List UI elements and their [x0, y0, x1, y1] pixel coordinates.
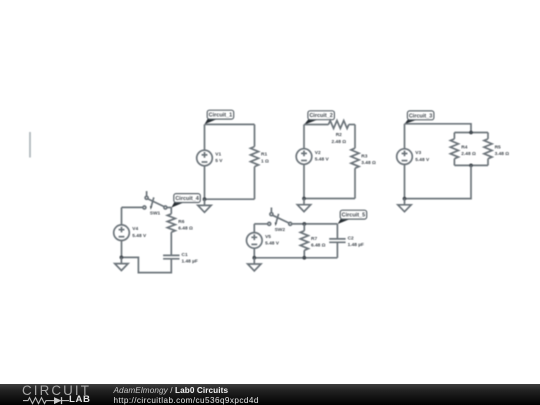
wire V3 bottom lead — [404, 164, 406, 198]
wire C2 top lead — [336, 224, 338, 239]
CircuitLab logo resistor and diode symbol — [22, 396, 70, 405]
wire V4 bottom lead — [121, 241, 123, 258]
svg-text:Circuit_2: Circuit_2 — [309, 113, 333, 119]
wire parallel bottom rail — [454, 164, 488, 166]
resistor R1 — [251, 124, 270, 199]
resistor R4 — [450, 133, 476, 166]
svg-text:6.48 Ω: 6.48 Ω — [311, 243, 326, 249]
node label Circuit_3 — [405, 111, 434, 124]
junction circuit4 ground node — [120, 256, 124, 260]
switch SW2 — [268, 208, 292, 234]
node label Circuit_4 — [171, 194, 200, 208]
junction parallel bottom — [469, 164, 473, 168]
resistor R2 — [304, 121, 355, 145]
svg-text:2.48 Ω: 2.48 Ω — [332, 139, 347, 145]
resistor R7 — [300, 224, 325, 258]
CircuitLab logo text CIRCUIT — [22, 384, 91, 397]
wire C2 bottom lead — [336, 242, 338, 257]
wire circuit5 bottom — [254, 257, 337, 259]
switch SW1 — [143, 191, 167, 217]
node label Circuit_2 — [304, 111, 334, 125]
wire V1 bottom lead — [204, 166, 206, 199]
svg-text:5 V: 5 V — [215, 158, 223, 164]
wire V5 bottom lead — [253, 248, 255, 258]
wire parallel top rail — [454, 132, 488, 134]
wire SW1 to R6 node — [167, 207, 171, 209]
CircuitLab logo word LAB — [69, 395, 91, 404]
svg-text:V1: V1 — [215, 151, 221, 157]
voltage source V2 — [296, 149, 329, 165]
junction parallel top — [469, 131, 473, 135]
junction circuit3 ground node — [403, 197, 407, 201]
junction R7 bottom — [302, 256, 306, 260]
svg-text:C1: C1 — [182, 252, 188, 258]
junction circuit2 ground node — [302, 197, 306, 201]
svg-text:5.48 V: 5.48 V — [265, 241, 280, 247]
svg-text:R3: R3 — [361, 153, 367, 159]
svg-text:V2: V2 — [315, 150, 321, 156]
svg-text:R7: R7 — [311, 236, 317, 242]
wire C1 return to ground node — [121, 257, 171, 272]
junction circuit1 ground node — [203, 197, 207, 201]
wire V2 bottom lead — [303, 164, 305, 198]
wire circuit1 bottom — [205, 198, 255, 200]
svg-text:Circuit_4: Circuit_4 — [175, 196, 199, 202]
junction circuit5 ground node — [252, 256, 256, 260]
wire V2 top lead — [303, 125, 305, 149]
footer bar — [0, 384, 540, 405]
svg-text:R1: R1 — [261, 152, 267, 158]
svg-text:R4: R4 — [461, 144, 467, 150]
ground — [398, 199, 411, 212]
svg-text:SW2: SW2 — [275, 227, 286, 233]
svg-text:3.48 Ω: 3.48 Ω — [495, 151, 510, 157]
ground — [297, 199, 310, 212]
svg-text:6.48 Ω: 6.48 Ω — [178, 226, 193, 232]
footer credit text — [114, 386, 259, 405]
ground — [115, 257, 128, 270]
svg-text:Circuit_1: Circuit_1 — [209, 113, 233, 119]
svg-text:R2: R2 — [336, 132, 342, 138]
svg-text:Circuit_3: Circuit_3 — [409, 113, 433, 119]
wire SW2 to C2 node — [292, 223, 338, 225]
svg-text:V5: V5 — [265, 234, 271, 240]
node label Circuit_5 — [338, 210, 367, 224]
voltage source V4 — [114, 225, 147, 241]
svg-text:5.48 V: 5.48 V — [315, 157, 330, 163]
wire circuit3 bottom — [405, 165, 472, 198]
svg-text:5.48 V: 5.48 V — [415, 157, 430, 163]
wire V5 top lead — [253, 224, 255, 233]
svg-text:1 Ω: 1 Ω — [261, 158, 269, 164]
wire V4 top lead — [121, 207, 123, 225]
voltage source V5 — [247, 233, 280, 249]
svg-text:Circuit_5: Circuit_5 — [342, 213, 366, 219]
ground — [248, 258, 261, 271]
wire circuit3 top — [405, 124, 472, 133]
svg-text:3.48 Ω: 3.48 Ω — [361, 160, 376, 166]
svg-text:5.48 V: 5.48 V — [132, 233, 147, 239]
node label Circuit_1 — [205, 110, 234, 124]
resistor R6 — [167, 207, 193, 255]
svg-text:2.48 Ω: 2.48 Ω — [461, 151, 476, 157]
stray wire segment left margin — [29, 132, 31, 158]
resistor R3 — [351, 125, 376, 199]
svg-text:V3: V3 — [415, 150, 421, 156]
ground — [198, 199, 211, 212]
voltage source V3 — [397, 149, 430, 165]
wire circuit1 top — [205, 123, 255, 125]
wire V3 top lead — [404, 124, 406, 149]
junction R7 top — [302, 222, 306, 226]
svg-text:1.48 µF: 1.48 µF — [348, 242, 364, 248]
svg-text:R6: R6 — [178, 219, 184, 225]
svg-text:R5: R5 — [495, 144, 501, 150]
wire V5 to SW2 — [254, 223, 267, 225]
wire circuit2 bottom — [304, 198, 355, 200]
svg-text:SW1: SW1 — [150, 211, 161, 217]
voltage source V1 — [197, 150, 224, 166]
svg-text:V4: V4 — [132, 226, 138, 232]
resistor R5 — [484, 133, 509, 166]
svg-text:1.48 µF: 1.48 µF — [182, 259, 198, 265]
capacitor C1 — [163, 252, 198, 265]
wire V4 to SW1 — [122, 206, 143, 208]
svg-text:C2: C2 — [348, 236, 354, 242]
capacitor C2 — [329, 236, 364, 249]
wire V1 top lead — [204, 124, 206, 150]
